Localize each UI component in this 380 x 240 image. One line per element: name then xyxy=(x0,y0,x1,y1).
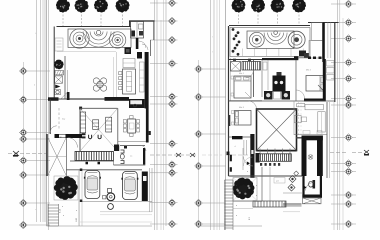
powder door arc plan 1 xyxy=(141,146,147,152)
section marker E plan1 xyxy=(176,153,195,157)
door jamb dashes plan 2 xyxy=(308,57,322,60)
site boundary lines left of plan 2 xyxy=(211,0,226,230)
bedroom1 label xyxy=(239,72,245,75)
tree T1-3 xyxy=(94,0,108,12)
stair bottom wall plan 1 xyxy=(70,161,114,164)
bridge dark end plan 2 xyxy=(256,153,260,163)
site lines bottom plan 2 xyxy=(196,202,262,227)
void xbox plan 2 xyxy=(257,109,297,151)
grid bubble L2-2 xyxy=(195,93,226,101)
wc black triangle plan 2 xyxy=(303,185,306,189)
drain diamond 1 plan 2 xyxy=(289,176,296,183)
bedroom1 walls plan 2 xyxy=(229,60,263,101)
spa rings west plan 1 xyxy=(70,29,89,48)
bridge balusters plan 2 xyxy=(260,163,280,166)
kitchen right wall plan 1 xyxy=(145,52,149,109)
bbq dark marks plan 2 xyxy=(299,51,309,58)
section line plan 2 xyxy=(202,153,364,156)
grid bubble R2-4 xyxy=(331,59,356,67)
xroom chair U 1 plan 1 xyxy=(89,135,92,139)
tree trunk line T1-1 xyxy=(62,11,64,27)
ramp cross bracing plan 1 xyxy=(48,138,67,175)
terrace frame top plan 2 xyxy=(296,136,323,141)
site bottom line plan 1 xyxy=(47,222,153,226)
bedroom2 closet wall plan 2 xyxy=(323,59,326,102)
grid bubble R1-9 xyxy=(150,169,178,177)
spa fan arcs plan 1 xyxy=(83,30,114,47)
grid bubble R2-10 xyxy=(331,168,356,176)
bedroom3 door arc plan 2 xyxy=(249,101,257,109)
dim text 2 plan 2 xyxy=(249,216,251,220)
svg-text:yrd: yrd xyxy=(276,180,279,183)
top right dark wall plan 2 xyxy=(322,23,325,63)
tree T2-3 xyxy=(271,0,285,13)
svg-text:x: x xyxy=(63,215,64,217)
mid wall east plan 1 xyxy=(70,98,105,100)
grid bubble L1-2 xyxy=(20,96,51,104)
tree trunk line T2-2 xyxy=(257,11,259,26)
bedroom2 top wall plan 2 xyxy=(294,56,308,59)
side yard box plan 1 xyxy=(55,38,63,51)
kitchen island plan 1 xyxy=(123,69,136,94)
wc bottom wall plan 2 xyxy=(302,195,322,198)
wc right wall plan 2 xyxy=(320,173,322,198)
kitchen top wall nub plan 1 xyxy=(137,52,142,59)
grid bubble L2-4 xyxy=(195,162,226,170)
right wall upper plan 1 xyxy=(150,40,152,56)
wc door arc plan 2 xyxy=(306,183,314,191)
drain diamond 2 plan 2 xyxy=(288,184,295,191)
svg-text:wc: wc xyxy=(130,156,132,158)
bedroom3 side tables xyxy=(232,111,235,126)
grid bubble R1-3 xyxy=(150,36,178,44)
terrace labels plan 2 xyxy=(303,131,322,135)
door arcs right of courtyard plan 1 xyxy=(139,41,148,50)
lower hall walls plan 2 xyxy=(262,167,270,201)
foyer left wall plan 1 xyxy=(49,99,51,134)
left wall plan 2 xyxy=(229,26,231,176)
bedroom1 side tables xyxy=(231,76,234,96)
powder right wall plan 1 xyxy=(143,148,145,165)
black bar below bed2 plan 2 xyxy=(304,99,325,102)
grid bubble L1-7 xyxy=(20,199,51,207)
svg-text:x: x xyxy=(236,215,237,217)
mid wall west plan 1 xyxy=(48,97,69,101)
grid bubble L2-6 xyxy=(195,220,226,228)
mid wall plan 2 xyxy=(229,100,335,102)
tree trunk line T2-4 xyxy=(298,11,300,26)
grid line A vertical plan 2 xyxy=(198,60,200,228)
shaft xbox plan 1 xyxy=(55,76,63,83)
courtyard upper edge line plan 1 xyxy=(57,51,116,53)
dining chairs right plan 1 xyxy=(137,120,140,133)
corner block bottom left plan 2 xyxy=(227,152,230,156)
planter tree P1 xyxy=(54,60,63,70)
wall under void plan 2 xyxy=(257,151,297,153)
stair treads plan 2 xyxy=(242,62,261,71)
grid bubble R1-6 xyxy=(150,100,178,108)
corridor black triangle plan 2 xyxy=(247,162,250,166)
svg-text:x: x xyxy=(256,195,257,197)
grid bubble R1-2 xyxy=(150,17,178,25)
bedroom2 closet boxes plan 2 xyxy=(327,61,335,81)
tree T1-2 xyxy=(75,0,89,13)
svg-text:x: x xyxy=(236,205,237,207)
car 1 plan 1 xyxy=(84,171,101,199)
xroom corner block plan 1 xyxy=(79,107,82,110)
centerline dashes plan 2 xyxy=(299,101,302,135)
svg-text:x: x xyxy=(256,185,257,187)
bedroom3 bottom wall plan 2 xyxy=(229,136,254,139)
tree T2-1 xyxy=(232,0,246,13)
wc toilet plan 2 xyxy=(309,180,316,189)
driveway circles plan 1 xyxy=(107,193,115,210)
xroom diagonals plan 1 xyxy=(81,109,118,151)
corridor dark strip plan 2 xyxy=(250,134,254,178)
kitchen counter stove plan 1 xyxy=(129,99,145,108)
grid bubble R1-8 xyxy=(150,161,178,169)
tree trunk line T1-2 xyxy=(81,11,83,27)
grid bubble L1-1 xyxy=(20,67,51,75)
shaft dot box plan 1 xyxy=(55,90,61,95)
grid bubble L1-5 xyxy=(20,157,51,165)
grid bubble R2-8 xyxy=(331,134,356,142)
grid bubble R1-11 xyxy=(150,220,178,228)
annex top wall plan 1 xyxy=(129,21,155,27)
powder left wall plan 1 xyxy=(113,151,115,165)
dining bottom wall plan 1 xyxy=(118,141,146,143)
dining table plan 1 xyxy=(128,119,136,133)
xroom shelf column 1 plan 1 xyxy=(80,112,85,133)
dim text 2 plan 1 xyxy=(76,217,78,222)
dining chairs left plan 1 xyxy=(123,120,126,133)
garage top wall plan 1 xyxy=(66,169,142,171)
gray band plan 2 xyxy=(283,193,302,212)
foyer dashed line plan 1 xyxy=(58,108,60,130)
mid wall black segment plan 1 xyxy=(105,97,130,101)
section marker E plan2 xyxy=(364,150,369,156)
bedroom2 door arc plan 2 xyxy=(296,90,305,99)
left wall upper plan 1 xyxy=(53,27,55,100)
bathroom annex fixtures plan 1 xyxy=(132,24,144,37)
svg-text:x: x xyxy=(247,171,248,173)
xroom chair U 2 plan 1 xyxy=(98,135,101,139)
driveway small squares plan 1 xyxy=(103,189,112,199)
terrace interior plan 2 xyxy=(308,155,313,160)
closet corridor lines plan 2 xyxy=(235,140,247,155)
bathroom annex walls plan 1 xyxy=(131,22,144,39)
foyer label plan 1 xyxy=(62,119,66,121)
planter grid B2 xyxy=(233,178,257,201)
wc left wall plan 2 xyxy=(302,173,304,198)
dim text 1 plan 1 xyxy=(60,208,62,213)
svg-text:x: x xyxy=(236,185,237,187)
shaft hatch box plan 1 xyxy=(55,71,64,75)
site boundary lines left of plan 1 xyxy=(37,0,49,230)
bedroom2 label xyxy=(306,69,312,72)
yard label box plan 2 xyxy=(274,178,285,184)
stair treads plan 1 xyxy=(75,152,114,161)
powder fixtures plan 1 xyxy=(120,150,124,164)
section marker W plan1 xyxy=(13,151,19,157)
xbox below wc plan 2 xyxy=(303,198,322,204)
shaft xbox plan 2 xyxy=(231,62,241,72)
powder top wall plan 1 xyxy=(114,145,145,152)
drain diamond small plan 2 xyxy=(294,171,299,176)
car 2 plan 1 xyxy=(121,172,138,200)
xroom right wall plan 1 xyxy=(117,108,119,145)
dining chair bottom plan 1 xyxy=(130,133,134,136)
site boundary lines right of plan 1 xyxy=(155,0,167,230)
grid bubble R2-9 xyxy=(331,160,356,168)
grid bubble R2-7 xyxy=(331,101,356,109)
powder label plan 1 xyxy=(130,156,132,158)
entry steps plan 1 xyxy=(48,204,59,226)
tree trunk line T2-3 xyxy=(277,11,279,26)
terrace frame left plan 2 xyxy=(302,136,307,177)
section line plan 1 xyxy=(8,154,196,156)
bedroom1 door arc plan 2 xyxy=(246,70,254,78)
top right room A plan 2 xyxy=(312,23,323,41)
kitchen floor lines plan 1 xyxy=(113,52,116,99)
spa rect plan 2 xyxy=(247,31,294,49)
shaft triangle plan 1 xyxy=(55,85,60,89)
closet dark blocks plan 2 xyxy=(273,72,286,92)
door swing mid plan 1 xyxy=(61,93,67,99)
tree T2-2 xyxy=(251,0,265,12)
right wall plan 2 xyxy=(327,23,335,231)
spa rings west plan 2 xyxy=(249,32,264,47)
top right room B plan 2 xyxy=(309,41,323,59)
grid bubble L1-6 xyxy=(20,171,51,179)
grid bubble R1-7 xyxy=(150,140,178,148)
bath sinks center plan 2 xyxy=(264,91,290,100)
top right closet lines plan 2 xyxy=(328,23,331,59)
garage right lines plan 1 xyxy=(150,168,153,212)
fireplace block plan 1 xyxy=(125,48,132,55)
grid bubble L1-8 xyxy=(20,221,51,229)
grid bubble R1-4 xyxy=(150,60,178,68)
wall below annex plan 1 xyxy=(136,38,139,49)
door swing hall plan 1 xyxy=(68,138,78,148)
building bottom wall plan 2 xyxy=(229,175,303,177)
foyer door arc plan 1 xyxy=(50,126,57,133)
grid bubble R2-2 xyxy=(331,19,356,27)
xroom top wall plan 1 xyxy=(80,107,118,109)
grid bubble R1-1 xyxy=(150,0,178,7)
dining right wall plan 1 xyxy=(146,109,151,143)
bridge hatch band plan 2 xyxy=(259,154,291,162)
shaft inner wall plan 1 xyxy=(65,56,67,99)
svg-text:x: x xyxy=(62,206,63,208)
margin label plan2 xyxy=(212,37,213,54)
grid bubble R2-11 xyxy=(331,191,356,199)
grid line A vertical plan 1 xyxy=(22,62,24,228)
dining chair top plan 1 xyxy=(130,116,134,119)
right wall annex plan 1 xyxy=(153,21,155,40)
upper wall plan 2 xyxy=(229,59,263,61)
ramp inner wall plan 1 xyxy=(66,138,68,176)
top right wall plan 2 xyxy=(308,22,339,24)
xroom dark bits plan 1 xyxy=(82,133,86,138)
big tree B1 xyxy=(54,176,78,200)
upper wall black segment plan 2 xyxy=(233,58,298,61)
grid bubble L2-5 xyxy=(195,199,226,207)
grid bubble R2-1 xyxy=(331,0,356,8)
bed 3 plan 2 xyxy=(235,111,252,126)
mid-right furniture plan 2 xyxy=(294,104,325,133)
roof deck plan 2 xyxy=(230,28,310,57)
grid bubble L1-4 xyxy=(20,135,51,143)
grid bubble R2-12 xyxy=(331,200,356,208)
bedroom3 label xyxy=(239,106,245,109)
bridge hangers plan 2 xyxy=(260,149,290,155)
entry steps plan 2 xyxy=(225,180,234,230)
xroom shelf column 3 plan 1 xyxy=(106,117,112,132)
spa pool deck plan 1 xyxy=(68,29,131,47)
grid bubble R2-5 xyxy=(331,75,356,83)
dim marks bottom plan1 xyxy=(62,206,77,217)
site boundary lines right of plan 2 xyxy=(338,0,344,230)
grid bubble R2-13 xyxy=(331,220,356,228)
tree trunk line T1-4 xyxy=(122,11,124,27)
grid bubble L1-3 xyxy=(20,129,51,137)
mid-right room walls plan 2 xyxy=(294,101,327,135)
kitchen cabinet plan 1 xyxy=(123,59,135,68)
tree T1-4 xyxy=(116,0,130,13)
bed 2 plan 2 xyxy=(306,76,325,92)
center hall lines plan 2 xyxy=(262,60,268,97)
grid bubble R2-3 xyxy=(331,35,356,43)
dim text 1 plan 2 xyxy=(238,192,240,196)
tree T2-4 xyxy=(292,0,306,12)
svg-text:x: x xyxy=(76,210,77,212)
kitchen counter appliances plan 1 xyxy=(140,62,145,92)
bedroom2 walls plan 2 xyxy=(295,60,297,101)
ramp outer wall plan 1 xyxy=(46,134,48,176)
corridor wall bits plan 2 xyxy=(230,148,243,172)
mid wall pillar plan 1 xyxy=(67,92,70,100)
spa rings east plan 1 xyxy=(109,32,125,48)
svg-text:up: up xyxy=(60,136,62,138)
garage right wall plan 1 xyxy=(142,172,148,202)
grid bubble L2-1 xyxy=(195,65,226,73)
tree trunk line T1-3 xyxy=(100,11,102,27)
perimeter wall top plan 2 xyxy=(229,25,310,27)
terrace frame right plan 2 xyxy=(317,136,323,177)
grid bubble L2-3 xyxy=(195,130,226,138)
corridor arcs plan 2 xyxy=(244,157,254,167)
svg-text:foyr: foyr xyxy=(62,119,66,121)
grid bubble R2-6 xyxy=(331,95,356,103)
label marks left margin plan1 xyxy=(34,33,37,212)
big tree B2 xyxy=(233,178,255,200)
grid bubble R1-10 xyxy=(150,199,178,207)
tree planter box B1 xyxy=(54,176,78,200)
perimeter wall top plan 1 xyxy=(57,26,132,28)
garage columns plan 1 xyxy=(79,169,83,227)
kitchen stools plan 1 xyxy=(119,72,122,90)
spa fan arcs plan 2 xyxy=(264,31,287,44)
tree T1-1 xyxy=(56,0,70,12)
courtyard table plan 1 xyxy=(93,78,106,91)
tree trunk line T2-1 xyxy=(238,11,240,26)
spa rings east plan 2 xyxy=(288,31,305,48)
planting strip plan 2 xyxy=(232,28,241,56)
powder bottom wall plan 1 xyxy=(114,164,146,166)
driveway lines bottom plan 1 xyxy=(80,202,152,215)
dim marks bottom plan2 xyxy=(236,171,257,217)
bedroom3 wall door bits plan 2 xyxy=(229,115,231,126)
xroom shelf column 2 plan 1 xyxy=(93,120,99,130)
garage bay lines plan 1 xyxy=(80,170,83,226)
grid bubble R1-5 xyxy=(150,93,178,101)
hatch steps bottom plan 2 xyxy=(253,201,286,207)
wall bar below foyer plan 1 xyxy=(55,134,83,138)
xroom left wall plan 1 xyxy=(79,109,81,151)
bed 1 plan 2 xyxy=(234,76,251,98)
